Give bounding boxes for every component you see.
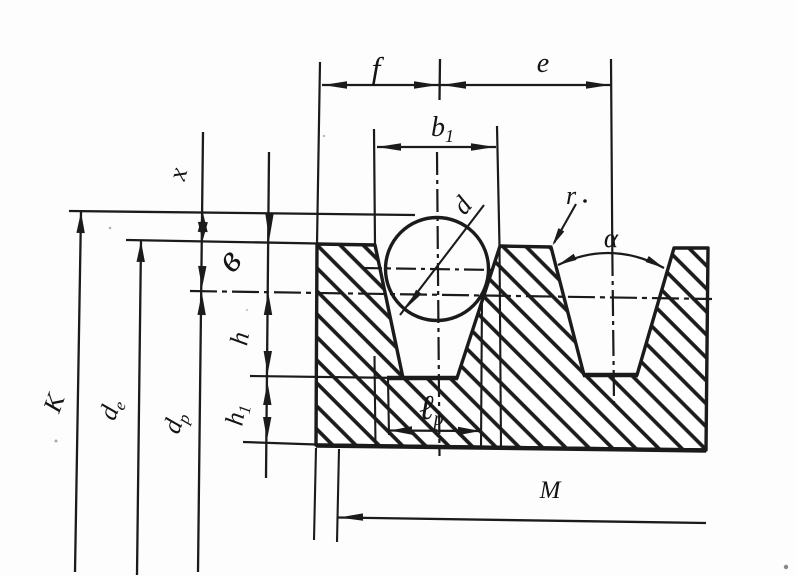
measuring ball D (386, 218, 489, 321)
K level line (ball top tangent) (69, 211, 415, 215)
worm thread body cross-section (hatched) (316, 244, 708, 450)
outside diameter level line (126, 240, 318, 244)
ball horizontal centre line (362, 268, 496, 270)
left extension line above body (317, 62, 320, 244)
b1 left extension (374, 129, 375, 245)
dimension line d_p with x dimension arrows (198, 132, 203, 572)
M extension line (337, 449, 339, 542)
thread root groove 1 (thick) (387, 376, 458, 381)
thread root groove 2 (thick) (583, 373, 638, 378)
ball diameter leader (400, 205, 484, 315)
dimension line d_e (137, 241, 141, 575)
svg-text:r: r (566, 181, 577, 210)
root level tick (left of groove) (250, 376, 403, 378)
scan speckles (55, 440, 58, 443)
dimension line K (75, 212, 81, 572)
M dimension line (338, 518, 706, 524)
pitch line (dash-dot across drawing) (190, 291, 712, 299)
f / e dimension line (322, 84, 611, 86)
svg-text:М: М (539, 477, 562, 504)
chain dimension line for в, h, h1 (266, 152, 269, 478)
b1 dimension line (377, 146, 496, 148)
left edge extension below body (314, 448, 316, 540)
bottom level tick (left of body) (243, 442, 316, 445)
svg-text:e: e (537, 48, 549, 79)
ball vertical centre line (438, 59, 441, 100)
lp dimension line (389, 429, 481, 432)
angle alpha arc (558, 253, 664, 268)
groove 2 centre line / e extension (611, 59, 612, 250)
flank pitch projection line (481, 294, 482, 449)
b1 right extension (497, 126, 500, 246)
groove corner extension lower left (375, 356, 376, 446)
svg-text:α: α (604, 223, 619, 253)
lp left extension (388, 379, 389, 435)
r leader arrow (554, 204, 576, 243)
body bottom edge (thick) (316, 446, 706, 451)
